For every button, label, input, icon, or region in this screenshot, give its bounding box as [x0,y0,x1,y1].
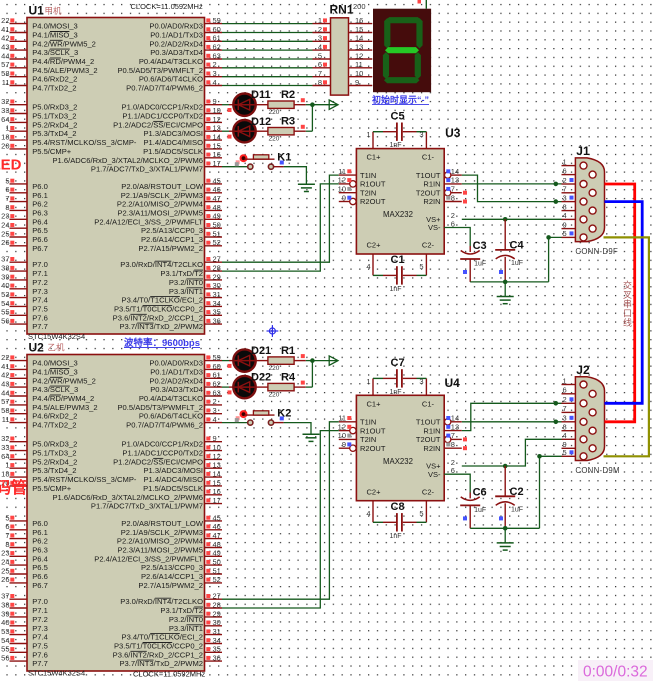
svg-text:P7.3: P7.3 [32,624,48,633]
svg-text:35: 35 [213,645,221,654]
svg-text:MAX232: MAX232 [383,210,413,219]
svg-text:36: 36 [213,317,221,326]
svg-text:18: 18 [1,133,9,142]
svg-text:3: 3 [419,130,423,139]
svg-text:R3: R3 [281,116,295,128]
svg-text:C1-: C1- [422,399,435,408]
svg-text:P7.7: P7.7 [32,322,48,331]
svg-text:27: 27 [213,255,221,264]
svg-text:16: 16 [213,487,221,496]
svg-text:11: 11 [338,167,346,176]
svg-text:50: 50 [213,558,221,567]
svg-text:C2+: C2+ [367,487,382,496]
svg-text:P2.6/A14/CCP1_3: P2.6/A14/CCP1_3 [141,572,203,581]
svg-text:2: 2 [563,395,567,404]
svg-text:P6.4: P6.4 [32,217,48,226]
svg-text:38: 38 [1,600,9,609]
svg-text:16: 16 [213,150,221,159]
svg-text:10: 10 [338,431,346,440]
svg-text:5: 5 [563,229,567,238]
svg-text:41: 41 [1,25,9,34]
svg-text:62: 62 [213,43,221,52]
svg-text:31: 31 [213,627,221,636]
svg-text:P2.7/A15/PWM2_2: P2.7/A15/PWM2_2 [138,581,203,590]
svg-text:初始时显示“-”: 初始时显示“-” [372,94,429,105]
svg-text:58: 58 [1,406,9,415]
svg-text:33: 33 [1,443,9,452]
svg-text:49: 49 [213,212,221,221]
svg-text:C1+: C1+ [367,153,382,162]
svg-text:47: 47 [213,531,221,540]
svg-text:2: 2 [318,25,322,34]
svg-text:1: 1 [5,124,9,133]
svg-text:P5.3/TxD4_2: P5.3/TxD4_2 [32,129,76,138]
svg-text:D12: D12 [251,116,271,128]
svg-text:P2.1/A9/SCLK_2/PWM3: P2.1/A9/SCLK_2/PWM3 [121,528,203,537]
svg-text:P6.0: P6.0 [32,182,48,191]
svg-text:C6: C6 [473,486,487,498]
svg-text:R1IN: R1IN [423,180,440,189]
svg-text:12: 12 [213,452,221,461]
svg-text:5: 5 [563,448,567,457]
svg-text:9: 9 [342,440,346,449]
svg-text:P6.5: P6.5 [32,226,48,235]
svg-text:30: 30 [213,618,221,627]
svg-text:P4.6/RxD2_2: P4.6/RxD2_2 [32,412,77,421]
svg-text:220: 220 [269,136,280,143]
svg-text:CONN-D9M: CONN-D9M [575,466,619,475]
svg-text:14: 14 [355,34,363,43]
svg-text:11: 11 [2,78,10,87]
svg-text:200: 200 [353,2,366,11]
svg-text:1: 1 [366,130,370,139]
svg-text:1: 1 [563,157,567,166]
svg-text:5: 5 [318,51,322,60]
svg-text:44: 44 [1,388,9,397]
svg-text:P4.0/MOSI_3: P4.0/MOSI_3 [32,359,78,368]
svg-text:24: 24 [1,558,9,567]
svg-text:220: 220 [269,392,280,399]
svg-text:55: 55 [1,645,9,654]
svg-text:P4.2/WR/PWM5_2: P4.2/WR/PWM5_2 [32,39,96,48]
svg-text:P7.2: P7.2 [32,278,48,287]
svg-text:1uF: 1uF [511,260,523,267]
svg-text:1uF: 1uF [511,506,523,513]
svg-text:12: 12 [338,176,346,185]
svg-text:9: 9 [563,220,567,229]
svg-text:T2IN: T2IN [360,435,376,444]
svg-text:P7.6: P7.6 [32,313,48,322]
svg-text:8: 8 [563,202,567,211]
svg-text:6: 6 [563,166,567,175]
svg-text:C5: C5 [391,111,405,123]
svg-text:25: 25 [1,566,9,575]
svg-text:7: 7 [563,404,567,413]
svg-text:3: 3 [419,377,423,386]
svg-text:P2.0/A8/RSTOUT_LOW: P2.0/A8/RSTOUT_LOW [121,519,204,528]
svg-text:P0.2/AD2/RxD4: P0.2/AD2/RxD4 [149,39,203,48]
svg-text:P5.0/RxD3_2: P5.0/RxD3_2 [32,440,77,449]
svg-text:P7.4: P7.4 [32,296,48,305]
svg-text:32: 32 [1,97,9,106]
svg-text:数码管: 数码管 [0,478,27,497]
svg-text:P1.3/ADC3/MOSI: P1.3/ADC3/MOSI [143,129,203,138]
svg-text:P6.2: P6.2 [32,200,48,209]
svg-text:P6.6: P6.6 [32,235,48,244]
svg-text:P4.7/TxD2_2: P4.7/TxD2_2 [32,421,76,430]
svg-text:8: 8 [5,203,9,212]
svg-text:5: 5 [5,513,9,522]
svg-text:52: 52 [213,238,221,247]
svg-text:P5.0/RxD3_2: P5.0/RxD3_2 [32,103,77,112]
svg-text:C1+: C1+ [367,399,382,408]
svg-text:50: 50 [213,221,221,230]
svg-text:16: 16 [355,16,363,25]
svg-text:33: 33 [1,106,9,115]
svg-text:P7.0: P7.0 [32,260,48,269]
svg-text:1nF: 1nF [390,533,402,540]
svg-text:34: 34 [213,636,221,645]
svg-text:乙机: 乙机 [48,343,66,353]
svg-text:P1.7/ADC7/TxD_3/XTAL1/PWM7: P1.7/ADC7/TxD_3/XTAL1/PWM7 [91,502,203,511]
svg-text:P4.5/ALE/PWM3_2: P4.5/ALE/PWM3_2 [32,66,97,75]
svg-text:C8: C8 [391,501,405,513]
svg-text:U1: U1 [29,4,45,18]
svg-text:44: 44 [1,51,9,60]
svg-text:4: 4 [563,431,567,440]
svg-text:6: 6 [5,522,9,531]
svg-text:13: 13 [451,176,459,185]
svg-text:11: 11 [2,415,10,424]
svg-text:4: 4 [213,415,217,424]
svg-text:C1: C1 [391,254,405,266]
svg-text:61: 61 [213,371,221,380]
svg-text:1uF: 1uF [474,261,486,268]
svg-text:RN1: RN1 [330,3,354,17]
svg-text:40: 40 [1,281,9,290]
svg-text:1nF: 1nF [390,286,402,293]
svg-text:14: 14 [213,470,221,479]
svg-text:9: 9 [213,434,217,443]
svg-text:1: 1 [318,16,322,25]
svg-text:7: 7 [5,194,9,203]
svg-text:C3: C3 [473,240,487,252]
svg-text:P7.1: P7.1 [32,606,48,615]
svg-text:T1OUT: T1OUT [416,418,441,427]
svg-text:P0.2/AD2/RxD4: P0.2/AD2/RxD4 [149,376,203,385]
svg-text:27: 27 [213,592,221,601]
svg-text:C1-: C1- [422,153,435,162]
svg-text:14: 14 [451,414,459,423]
svg-text:13: 13 [213,124,221,133]
svg-text:VS-: VS- [428,223,441,232]
svg-text:CLOCK=11.0592MHz: CLOCK=11.0592MHz [133,670,205,679]
svg-text:7: 7 [451,185,455,194]
svg-text:P4.4/RD/PWM4_2: P4.4/RD/PWM4_2 [32,57,94,66]
svg-text:P6.7: P6.7 [32,581,48,590]
svg-text:P0.3/AD3/TxD4: P0.3/AD3/TxD4 [150,48,203,57]
svg-text:4: 4 [366,509,370,518]
svg-text:K1: K1 [277,152,291,164]
svg-text:J2: J2 [576,363,590,377]
svg-text:23: 23 [1,549,9,558]
svg-text:55: 55 [1,308,9,317]
svg-text:17: 17 [213,496,221,505]
svg-text:4: 4 [213,78,217,87]
svg-text:45: 45 [213,513,221,522]
svg-text:C2-: C2- [422,241,435,250]
svg-text:P7.2: P7.2 [32,615,48,624]
svg-text:P0.1/AD1/TxD3: P0.1/AD1/TxD3 [150,31,203,40]
svg-text:LED: LED [0,157,22,174]
svg-text:P4.2/WR/PWM5_2: P4.2/WR/PWM5_2 [32,376,96,385]
svg-text:P0.4/AD4/T3CLKO: P0.4/AD4/T3CLKO [139,57,203,66]
svg-text:54: 54 [1,636,9,645]
svg-text:C2-: C2- [422,487,435,496]
svg-text:U4: U4 [445,376,461,390]
svg-text:20: 20 [1,141,9,150]
svg-text:P2.4/A12/ECI_3/SS_2/PWMFLT: P2.4/A12/ECI_3/SS_2/PWMFLT [94,217,203,226]
svg-text:P2.2/A10/MISO_2/PWM4: P2.2/A10/MISO_2/PWM4 [117,537,203,546]
svg-text:3: 3 [213,69,217,78]
svg-text:P2.3/A11/MOSI_2/PWM5: P2.3/A11/MOSI_2/PWM5 [117,546,203,555]
svg-text:P5.2/RxD4_2: P5.2/RxD4_2 [32,120,77,129]
svg-text:P0.4/AD4/T3CLKO: P0.4/AD4/T3CLKO [139,394,203,403]
svg-text:P1.0/ADC0/CCP1/RxD2: P1.0/ADC0/CCP1/RxD2 [122,440,203,449]
svg-text:P6.1: P6.1 [32,528,48,537]
svg-text:D11: D11 [251,89,271,101]
svg-text:10: 10 [213,443,221,452]
svg-text:P6.0: P6.0 [32,519,48,528]
svg-text:P1.1/ADC1/CCP0/TxD2: P1.1/ADC1/CCP0/TxD2 [122,112,203,121]
svg-text:P1.6/ADC6/RxD_3/XTAL2/MCLKO_2/: P1.6/ADC6/RxD_3/XTAL2/MCLKO_2/PWM6 [52,493,203,502]
svg-text:31: 31 [213,290,221,299]
svg-text:10: 10 [338,185,346,194]
svg-text:R2IN: R2IN [423,444,440,453]
svg-text:P0.6/AD6/T4CLKO: P0.6/AD6/T4CLKO [139,412,203,421]
svg-text:40: 40 [1,618,9,627]
svg-text:7: 7 [5,531,9,540]
svg-text:42: 42 [1,371,9,380]
svg-text:46: 46 [213,522,221,531]
svg-text:45: 45 [213,176,221,185]
svg-text:1: 1 [5,461,9,470]
svg-text:2: 2 [213,60,217,69]
svg-text:15: 15 [213,478,221,487]
svg-text:53: 53 [1,290,9,299]
svg-text:P7.6: P7.6 [32,650,48,659]
svg-text:51: 51 [213,566,221,575]
svg-text:52: 52 [213,575,221,584]
svg-text:P2.5/A13/CCP0_3: P2.5/A13/CCP0_3 [141,563,203,572]
svg-text:P6.1: P6.1 [32,191,48,200]
svg-text:P5.2/RxD4_2: P5.2/RxD4_2 [32,457,77,466]
svg-text:38: 38 [1,263,9,272]
svg-text:P2.3/A11/MOSI_2/PWM5: P2.3/A11/MOSI_2/PWM5 [117,208,203,217]
svg-text:2: 2 [563,176,567,185]
svg-text:3: 3 [563,193,567,202]
svg-text:9: 9 [213,97,217,106]
svg-text:P2.1/A9/SCLK_2/PWM3: P2.1/A9/SCLK_2/PWM3 [121,191,203,200]
svg-text:13: 13 [451,422,459,431]
svg-text:8: 8 [451,193,455,202]
svg-text:P1.3/ADC3/MOSI: P1.3/ADC3/MOSI [143,466,203,475]
svg-text:10: 10 [213,106,221,115]
svg-text:30: 30 [213,281,221,290]
svg-text:波特率：9600bps: 波特率：9600bps [124,337,200,349]
svg-text:P1.0/ADC0/CCP1/RxD2: P1.0/ADC0/CCP1/RxD2 [122,103,203,112]
svg-text:T2IN: T2IN [360,188,376,197]
svg-text:线: 线 [623,317,632,328]
svg-text:51: 51 [213,229,221,238]
svg-text:P2.0/A8/RSTOUT_LOW: P2.0/A8/RSTOUT_LOW [121,182,204,191]
svg-text:U2: U2 [29,341,45,355]
svg-text:15: 15 [213,141,221,150]
svg-text:P5.1/TxD3_2: P5.1/TxD3_2 [32,449,76,458]
svg-text:P0.5/AD5/T3/PWMFLT_2: P0.5/AD5/T3/PWMFLT_2 [117,403,203,412]
svg-text:P7.4: P7.4 [32,633,48,642]
svg-text:29: 29 [213,272,221,281]
svg-text:64: 64 [1,452,9,461]
svg-text:60: 60 [213,25,221,34]
svg-text:1nF: 1nF [390,142,402,149]
svg-text:13: 13 [213,461,221,470]
svg-text:P5.1/TxD3_2: P5.1/TxD3_2 [32,112,76,121]
svg-text:43: 43 [1,380,9,389]
svg-text:P5.4/RST/MCLKO/SS_3/CMP-: P5.4/RST/MCLKO/SS_3/CMP- [32,475,137,484]
svg-text:P2.4/A12/ECI_3/SS_2/PWMFLT: P2.4/A12/ECI_3/SS_2/PWMFLT [94,554,203,563]
svg-text:P5.4/RST/MCLKO/SS_3/CMP-: P5.4/RST/MCLKO/SS_3/CMP- [32,138,137,147]
svg-text:P7.3: P7.3 [32,287,48,296]
svg-text:63: 63 [213,388,221,397]
svg-text:1: 1 [563,376,567,385]
svg-text:64: 64 [1,115,9,124]
svg-text:5: 5 [419,509,423,518]
svg-text:22: 22 [1,16,9,25]
svg-text:56: 56 [1,654,9,663]
svg-text:25: 25 [1,229,9,238]
svg-text:P1.4/ADC4/MISO: P1.4/ADC4/MISO [143,475,203,484]
svg-text:P3.6/INT2/RxD_2/CCP1_2: P3.6/INT2/RxD_2/CCP1_2 [113,650,203,659]
svg-text:37: 37 [1,255,9,264]
svg-text:R2OUT: R2OUT [360,444,386,453]
svg-text:R2IN: R2IN [423,197,440,206]
svg-text:P0.7/AD7/T4/PWM6_2: P0.7/AD7/T4/PWM6_2 [126,84,203,93]
svg-text:32: 32 [1,434,9,443]
svg-text:C4: C4 [510,239,525,251]
svg-text:P2.7/A15/PWM2_2: P2.7/A15/PWM2_2 [138,244,203,253]
svg-text:3: 3 [563,414,567,423]
svg-text:T1IN: T1IN [360,418,376,427]
svg-text:3: 3 [318,34,322,43]
svg-text:C7: C7 [391,357,405,369]
svg-text:R2OUT: R2OUT [360,197,386,206]
svg-text:4: 4 [366,262,370,271]
svg-text:48: 48 [213,203,221,212]
svg-text:6: 6 [318,60,322,69]
svg-text:47: 47 [213,194,221,203]
svg-text:STC15W4K32S4: STC15W4K32S4 [28,669,85,678]
svg-text:3: 3 [213,406,217,415]
svg-text:K2: K2 [277,407,291,419]
svg-text:U3: U3 [445,126,461,140]
svg-text:T1OUT: T1OUT [416,171,441,180]
svg-text:6: 6 [563,386,567,395]
svg-text:10: 10 [355,69,363,78]
svg-text:P5.5/CMP+: P5.5/CMP+ [32,147,72,156]
svg-text:59: 59 [213,353,221,362]
svg-text:P2.5/A13/CCP0_3: P2.5/A13/CCP0_3 [141,226,203,235]
svg-text:P1.4/ADC4/MISO: P1.4/ADC4/MISO [143,138,203,147]
svg-text:P6.4: P6.4 [32,554,48,563]
svg-text:9: 9 [355,78,359,87]
svg-text:P6.2: P6.2 [32,537,48,546]
svg-text:53: 53 [1,627,9,636]
svg-text:T1IN: T1IN [360,171,376,180]
svg-text:8: 8 [5,540,9,549]
svg-text:58: 58 [1,69,9,78]
svg-text:P3.6/INT2/RxD_2/CCP1_2: P3.6/INT2/RxD_2/CCP1_2 [113,313,203,322]
svg-text:4: 4 [563,211,567,220]
svg-text:P6.7: P6.7 [32,244,48,253]
svg-text:41: 41 [1,362,9,371]
svg-text:P7.5: P7.5 [32,304,48,313]
svg-text:7: 7 [563,185,567,194]
svg-text:37: 37 [1,592,9,601]
svg-text:49: 49 [213,549,221,558]
svg-text:P0.1/AD1/TxD3: P0.1/AD1/TxD3 [150,367,203,376]
svg-text:4: 4 [318,42,322,51]
svg-text:P4.4/RD/PWM4_2: P4.4/RD/PWM4_2 [32,394,94,403]
svg-text:22: 22 [1,353,9,362]
svg-text:12: 12 [338,422,346,431]
svg-text:P7.1: P7.1 [32,269,48,278]
svg-text:VS-: VS- [428,470,441,479]
svg-text:R4: R4 [281,371,296,383]
svg-text:39: 39 [1,609,9,618]
svg-text:P4.6/RxD2_2: P4.6/RxD2_2 [32,75,77,84]
svg-text:6: 6 [5,185,9,194]
svg-text:P3.7/INT3/TxD_2/PWM2: P3.7/INT3/TxD_2/PWM2 [119,322,203,331]
svg-text:15: 15 [355,25,363,34]
svg-text:D22: D22 [251,372,271,384]
svg-text:17: 17 [213,159,221,168]
svg-text:35: 35 [213,308,221,317]
svg-text:P1.5/ADC5/SCLK: P1.5/ADC5/SCLK [143,484,203,493]
svg-text:P6.3: P6.3 [32,546,48,555]
svg-text:甲机: 甲机 [45,6,63,16]
svg-text:12: 12 [213,115,221,124]
svg-text:P0.0/AD0/RxD3: P0.0/AD0/RxD3 [149,22,203,31]
svg-text:D21: D21 [251,345,271,357]
svg-text:7: 7 [318,69,322,78]
svg-text:T2OUT: T2OUT [416,188,441,197]
svg-text:57: 57 [1,60,9,69]
svg-text:60: 60 [213,362,221,371]
svg-text:8: 8 [451,440,455,449]
svg-text:P7.7: P7.7 [32,659,48,668]
svg-text:CONN-D9F: CONN-D9F [575,247,618,256]
svg-text:P0.5/AD5/T3/PWMFLT_2: P0.5/AD5/T3/PWMFLT_2 [117,66,203,75]
svg-text:P5.5/CMP+: P5.5/CMP+ [32,484,72,493]
svg-text:7: 7 [451,431,455,440]
svg-text:P0.7/AD7/T4/PWM6_2: P0.7/AD7/T4/PWM6_2 [126,421,203,430]
svg-text:P6.6: P6.6 [32,572,48,581]
svg-text:1uF: 1uF [474,507,486,514]
svg-text:43: 43 [1,43,9,52]
svg-text:CLOCK=11.0592MHz: CLOCK=11.0592MHz [131,2,203,11]
svg-text:R2: R2 [281,89,295,101]
